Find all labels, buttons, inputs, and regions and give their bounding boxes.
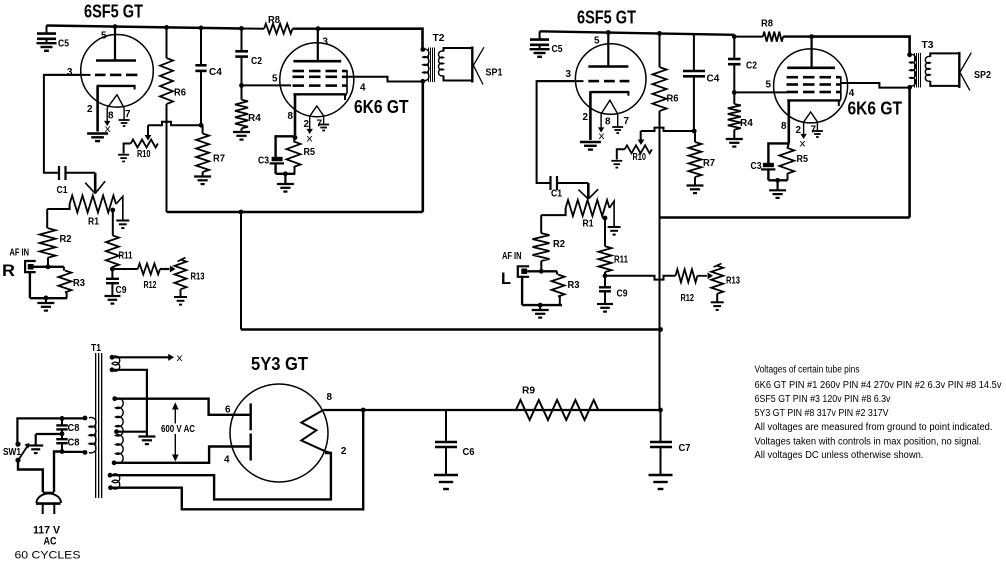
wire: to T2 primary top [318, 29, 423, 50]
node: R1/R11 tap [110, 208, 115, 213]
potentiometer R13 [175, 260, 187, 290]
SW1 arm [19, 446, 28, 460]
svg-text:7: 7 [125, 109, 131, 120]
svg-text:AF IN: AF IN [502, 251, 522, 262]
ground under C9 (right) [597, 303, 613, 305]
svg-text:4: 4 [224, 455, 230, 466]
plate bar 6K6 [293, 60, 341, 63]
svg-text:x: x [307, 134, 313, 145]
wire: to 6K6-R pin5 [734, 91, 788, 93]
resistor R12 (right) [676, 269, 698, 282]
tube 6SF5 GT (left) [81, 35, 154, 108]
svg-text:C7: C7 [679, 443, 691, 454]
T1 primary winding [89, 417, 96, 452]
R1 wiper arrow (right) [587, 183, 590, 199]
node: pin8/heater junction [361, 408, 366, 413]
wire: R8 run of top rail [242, 28, 265, 30]
svg-text:6K6 GT PIN #1 260v PIN #4 270v: 6K6 GT PIN #1 260v PIN #4 270v PIN #2 6.… [755, 380, 1002, 391]
node: T2 primary bottom [420, 79, 425, 84]
wire: pin5 plate lead (right) [607, 32, 609, 66]
wire: cathode pin2 down to ground [96, 86, 99, 132]
T1 5V rectifier winding (bottom) [112, 474, 120, 489]
cathode bar 6K6 [293, 93, 347, 95]
svg-text:3: 3 [67, 67, 73, 78]
T1 HV secondary winding [116, 398, 124, 463]
svg-text:C6: C6 [463, 447, 475, 458]
svg-text:All voltages are measured from: All voltages are measured from ground to… [755, 422, 993, 433]
wire: pin3 plate lead (right) [810, 37, 812, 68]
svg-text:L: L [501, 269, 511, 288]
resistor R7 [196, 134, 209, 173]
svg-text:C1: C1 [551, 189, 562, 200]
svg-text:R13: R13 [191, 272, 205, 283]
svg-text:T3: T3 [922, 40, 934, 51]
capacitor C9 [111, 269, 113, 279]
tube 6K6 GT (right) [774, 49, 848, 123]
capacitor C8 (lower) [61, 434, 63, 439]
capacitor C2 [241, 29, 243, 52]
svg-text:3: 3 [323, 37, 329, 48]
wire: right channel B+ top rail [540, 31, 735, 35]
svg-text:C2: C2 [746, 61, 757, 72]
svg-text:6SF5 GT: 6SF5 GT [84, 2, 143, 22]
switch SW1 and line input [17, 418, 62, 443]
node: C2/R4/pin5 junction (right) [732, 90, 737, 95]
cathode bar 6SF5 [97, 85, 136, 87]
svg-text:AF IN: AF IN [10, 248, 30, 259]
resistor R11 (right) [604, 218, 606, 246]
node: bottom bus junction [658, 327, 663, 332]
svg-text:C4: C4 [209, 67, 222, 78]
svg-text:7: 7 [624, 116, 630, 127]
svg-text:2: 2 [796, 125, 802, 136]
wire: to T1 primary bottom [62, 451, 85, 453]
ground at 6SF5 cathode [87, 132, 108, 134]
wire: jack shield loop [25, 271, 30, 273]
speaker SP2 [958, 52, 960, 88]
wire: pin 3 plate lead [317, 29, 319, 62]
resistor R2 [46, 209, 48, 228]
node: C8 bottom junction [60, 449, 65, 454]
svg-text:R3: R3 [568, 280, 580, 291]
capacitor C8 (upper) [61, 418, 63, 425]
wire: to C3 [276, 136, 295, 157]
svg-text:R8: R8 [761, 19, 773, 30]
svg-text:R2: R2 [553, 239, 565, 250]
potentiometer R1 (right) [566, 200, 610, 216]
svg-text:R10: R10 [633, 152, 647, 163]
svg-text:C9: C9 [116, 285, 127, 296]
wire: R1 right end to ground [116, 197, 123, 220]
heater 6SF5 (pins 8,7) [107, 95, 124, 108]
wire: pin2 stub [325, 451, 331, 453]
plate bar 6SF5-R [588, 65, 628, 68]
T2 core [428, 48, 429, 83]
capacitor C4 [200, 28, 202, 66]
node: T3 primary top [907, 52, 912, 57]
wire: left B+ vertical from T2 [421, 81, 424, 212]
svg-text:x: x [105, 124, 111, 135]
svg-text:2: 2 [583, 112, 589, 123]
resistor R9 [516, 400, 598, 420]
svg-text:R8: R8 [268, 15, 280, 26]
capacitor C9 (right) [604, 276, 606, 287]
wire: rail corner to C2 (right) [733, 35, 735, 37]
svg-text:R1: R1 [583, 219, 594, 230]
svg-text:R13: R13 [726, 276, 740, 287]
svg-text:T1: T1 [91, 343, 101, 354]
svg-text:R3: R3 [73, 278, 85, 289]
label 600 V AC with measurement arrow [174, 404, 176, 460]
wire: C3/R5 bottom [276, 173, 296, 175]
wire: 5V winding to 5Y3 pin2 [110, 453, 331, 499]
svg-text:AC: AC [44, 536, 57, 548]
wire: to C3-R5 (right) [768, 143, 788, 163]
svg-text:x: x [599, 131, 605, 142]
T1 core [95, 353, 96, 498]
wire: cathode pin8 down (right) [787, 100, 790, 143]
node: R6 top junction [164, 25, 169, 30]
resistor R3 [63, 267, 65, 271]
svg-text:R5: R5 [797, 154, 809, 165]
svg-text:All voltages DC unless otherwi: All voltages DC unless otherwise shown. [755, 450, 924, 461]
wire: to R12 [112, 268, 137, 270]
svg-text:6SF5 GT: 6SF5 GT [577, 8, 636, 28]
node: 6K6 pin3 junction [316, 26, 321, 31]
svg-text:R11: R11 [119, 251, 133, 262]
plate bar 6SF5 [96, 59, 136, 62]
wire: R10/C4/R7 junction with hop (right) [641, 128, 695, 131]
ground under R13 (right) [716, 294, 718, 302]
svg-text:8: 8 [327, 392, 333, 403]
ground under C3/R5 [284, 174, 286, 184]
svg-text:SW1: SW1 [3, 447, 21, 458]
potentiometer R10 with wiper arrow [147, 125, 149, 136]
node: R11/C9/R12 junction [110, 267, 115, 272]
wire: left channel B+ rail [167, 211, 423, 214]
resistor R5 (right) [788, 143, 789, 147]
5Y3 plate pin4 bar [249, 434, 251, 461]
svg-text:C3: C3 [258, 156, 269, 167]
T3 core [914, 53, 915, 88]
svg-text:R: R [2, 261, 15, 280]
node: 6SF5 pin5 rail junction [113, 24, 118, 29]
grid rows 6K6 [293, 70, 305, 73]
tube 6K6 GT (left) [280, 43, 354, 117]
svg-text:2: 2 [87, 104, 93, 115]
wire: switch to plug [18, 460, 43, 492]
resistor R4 [241, 85, 243, 99]
svg-text:R9: R9 [522, 386, 535, 397]
svg-text:3: 3 [566, 69, 572, 80]
svg-text:R4: R4 [740, 118, 753, 129]
wire/arrow to R13 (tone) [160, 268, 170, 270]
ground at input (R) [45, 298, 47, 302]
node: T2 primary top [420, 47, 425, 52]
wire: heater winding return to CT [112, 370, 147, 432]
node: C2 top junction [239, 26, 244, 31]
capacitor C3 (electrolytic) [272, 157, 283, 161]
svg-text:T2: T2 [433, 33, 445, 44]
svg-text:C4: C4 [707, 74, 720, 85]
node: T3 primary bottom [907, 85, 912, 90]
tube 5Y3 GT rectifier [230, 384, 328, 482]
wire: 5V winding to B+ (pin8 side) [111, 410, 364, 509]
wire: C3/R5 bottom (right) [768, 179, 787, 181]
grid pin3 dashed (right) [537, 80, 584, 82]
wire: secondary to speaker [444, 48, 473, 52]
svg-text:C8: C8 [68, 438, 80, 449]
capacitor C2 (right) [733, 37, 735, 59]
wire: midpoint to ground [36, 433, 62, 435]
ground at input (L) [539, 305, 541, 309]
svg-text:Voltages taken with controls i: Voltages taken with controls in max posi… [755, 436, 982, 447]
svg-text:4: 4 [360, 83, 366, 94]
tube 6SF5 GT (right) [575, 44, 646, 115]
heater 6K6-R [804, 112, 818, 122]
node: C8 top junction [60, 416, 65, 421]
svg-text:C9: C9 [617, 289, 628, 300]
wire: to plug right prong [54, 452, 62, 493]
svg-text:7: 7 [317, 119, 323, 130]
wire: left channel B+ top rail [47, 26, 242, 29]
wire: B+ output from pin 8 [323, 409, 660, 411]
node: R1/R11 tap (right) [603, 216, 608, 221]
svg-text:x: x [800, 139, 806, 150]
svg-text:R12: R12 [144, 280, 157, 291]
svg-text:2: 2 [304, 119, 310, 130]
svg-text:6K6 GT: 6K6 GT [354, 97, 409, 117]
svg-text:8: 8 [605, 117, 611, 128]
potentiometer R10 (right) [640, 131, 642, 141]
svg-text:C2: C2 [251, 56, 262, 67]
heater 6K6 (pins 2,7) [310, 106, 324, 116]
AC plug [43, 492, 54, 494]
resistor R5 [294, 138, 295, 142]
R1 wiper arrow [94, 173, 97, 193]
svg-text:Voltages of certain tube pins: Voltages of certain tube pins [755, 365, 860, 376]
T1 heater winding x (top) [112, 356, 120, 371]
svg-text:R1: R1 [88, 217, 99, 228]
wire/arrow to R13 (right) [697, 275, 707, 277]
svg-text:R7: R7 [213, 154, 225, 165]
node: R9/C7/bus junction [658, 408, 663, 413]
svg-text:5Y3 GT: 5Y3 GT [251, 354, 308, 374]
cathode bar 6K6-R [787, 99, 841, 101]
svg-text:R6: R6 [174, 88, 186, 99]
capacitor C1 (right) [549, 176, 551, 190]
grid rows 6K6-R [787, 76, 799, 79]
svg-text:6K6 GT: 6K6 GT [848, 99, 903, 119]
resistor R8 (right) [734, 36, 763, 38]
resistor R11 [112, 210, 114, 235]
screen bracket to pin4 (right) [840, 76, 842, 100]
wire: secondary to speaker SP2 [930, 53, 959, 57]
svg-text:7: 7 [811, 125, 817, 136]
svg-text:SP2: SP2 [974, 70, 991, 81]
svg-text:R2: R2 [60, 234, 72, 245]
svg-text:R10: R10 [137, 149, 151, 160]
wire: B+ bus vertical (right) [659, 111, 661, 410]
resistor R6 (right) [659, 33, 661, 67]
capacitor C3 (right) [763, 163, 774, 167]
resistor R8 [264, 24, 292, 34]
wire: to T1 primary top [62, 417, 85, 419]
wire: to R12 with hop over B+ bus [605, 276, 676, 280]
wire: jack to R2/R3 (right) [527, 270, 557, 272]
ground under C5 [37, 42, 57, 44]
5Y3 filament [301, 410, 325, 451]
node: cathode/C3/R5 junction [293, 135, 298, 140]
wire: 6SF5 grid down to C1 [44, 75, 81, 173]
capacitor C5 [46, 26, 48, 34]
svg-text:x: x [177, 353, 183, 364]
potentiometer R13 (right) [711, 266, 723, 294]
wire: bottom B+ bus rail [241, 328, 661, 331]
wire: right channel B+ rail [660, 216, 910, 219]
svg-text:C5: C5 [552, 44, 563, 55]
wire: R10/C4/R7 junction wire with hop over R6 lead [148, 122, 201, 125]
wire: HV bottom to 5Y3 pin4 [114, 447, 249, 463]
svg-text:6SF5 GT PIN #3 120v PIN #8 6.3: 6SF5 GT PIN #3 120v PIN #8 6.3v [755, 394, 891, 405]
resistor R7 (right) [694, 131, 696, 142]
wire: drop to bottom B+ bus [240, 212, 242, 330]
wire: HV top to 5Y3 pin6 [115, 399, 250, 415]
ground at HV center tap [138, 435, 155, 437]
speaker SP1 [471, 47, 473, 83]
svg-text:6: 6 [225, 405, 231, 416]
svg-text:5: 5 [766, 80, 772, 91]
svg-text:R6: R6 [667, 94, 679, 105]
capacitor C4 (right) [693, 34, 695, 71]
svg-text:5: 5 [101, 31, 107, 42]
wire: jack to R2/R3 [34, 266, 64, 268]
svg-text:8: 8 [108, 111, 114, 122]
resistor R2 (right) [540, 215, 542, 233]
wire: HV center tap to ground [117, 431, 147, 433]
plate bar 6K6-R [787, 67, 835, 70]
svg-text:R7: R7 [703, 158, 715, 169]
capacitor C7 [660, 410, 662, 442]
wire: pin 5 plate lead [114, 26, 116, 60]
resistor R12 [138, 264, 160, 275]
svg-text:5: 5 [272, 74, 278, 85]
ground under C5-R [530, 48, 550, 50]
wire: to T3 primary top [812, 37, 910, 55]
svg-text:5Y3 GT PIN #8 317v PIN #2 317V: 5Y3 GT PIN #8 317v PIN #2 317V [755, 408, 889, 419]
wire: C1 to R1 wiper (right) [557, 182, 588, 184]
node: C4/R7 junction (right) [692, 129, 697, 134]
wire: cathode pin8 down [294, 94, 297, 137]
heater 6SF5-R [601, 100, 618, 114]
node: 6SF5-R pin5 junction [606, 30, 611, 35]
node: C4 top junction [199, 26, 204, 31]
ground under C3/R5 (right) [776, 180, 778, 190]
grid (pin 3) dashed [44, 74, 91, 76]
capacitor C5 (right) [539, 31, 541, 39]
cathode bar 6SF5-R [589, 91, 629, 93]
5Y3 plate pin6 bar [249, 403, 251, 430]
wire: 6SF5-R grid down to C1 [537, 81, 574, 183]
potentiometer R1 (volume) [70, 196, 116, 213]
resistor R4 (right) [733, 92, 735, 104]
capacitor C6 [445, 410, 447, 442]
ground under R13 [180, 289, 182, 296]
svg-text:2: 2 [341, 446, 347, 457]
wire: R1 right end to ground (right) [610, 201, 615, 226]
svg-text:4: 4 [849, 88, 855, 99]
wire: heater x arrow [112, 356, 169, 358]
wire: pin2 to ground (right) [589, 92, 592, 140]
svg-text:C8: C8 [68, 423, 80, 434]
svg-text:R11: R11 [614, 255, 628, 266]
wire: jack shield loop (right) [521, 276, 523, 305]
node: C2/R4/pin5 junction [239, 83, 244, 88]
capacitor C1 (left) [58, 166, 60, 180]
svg-text:5: 5 [594, 36, 600, 47]
ground under C7 [649, 474, 673, 476]
T2 secondary winding [439, 51, 444, 76]
svg-text:C1: C1 [57, 185, 68, 196]
svg-text:R12: R12 [681, 293, 695, 304]
svg-text:R4: R4 [248, 113, 261, 124]
svg-text:8: 8 [781, 121, 787, 132]
ground at 6SF5-R cathode [580, 141, 601, 143]
node: 6K6-R pin3 junction [809, 34, 814, 39]
wire: right B+ vertical from T3 [908, 87, 911, 217]
wire: R6 bottom down to B+ rail [166, 104, 168, 212]
svg-text:8: 8 [288, 111, 294, 122]
wire: C1 to R1 wiper [66, 172, 96, 174]
svg-text:SP1: SP1 [486, 68, 503, 79]
svg-text:C5: C5 [58, 39, 69, 50]
node: R11/C9/R12 junction (right) [603, 273, 608, 278]
svg-text:60 CYCLES: 60 CYCLES [15, 550, 81, 562]
node: B+ rail drop junction [239, 210, 244, 215]
ground under C6 [434, 474, 458, 476]
node: C4/R7 junction [199, 123, 204, 128]
svg-text:C3: C3 [751, 161, 762, 172]
svg-text:600 V AC: 600 V AC [161, 423, 195, 435]
node: R6-R top junction [657, 31, 662, 36]
T2 primary winding [423, 49, 429, 81]
node: C8 midpoint [60, 431, 65, 436]
svg-text:R5: R5 [304, 147, 316, 158]
screen bracket to pin 4 [346, 70, 348, 94]
T3 primary winding [910, 54, 916, 86]
resistor R6 [166, 27, 168, 58]
T3 secondary winding [925, 57, 930, 82]
wire: to 6K6 pin 5 [242, 84, 292, 86]
resistor R3 (right) [556, 271, 558, 274]
ground under C9 [104, 295, 120, 297]
